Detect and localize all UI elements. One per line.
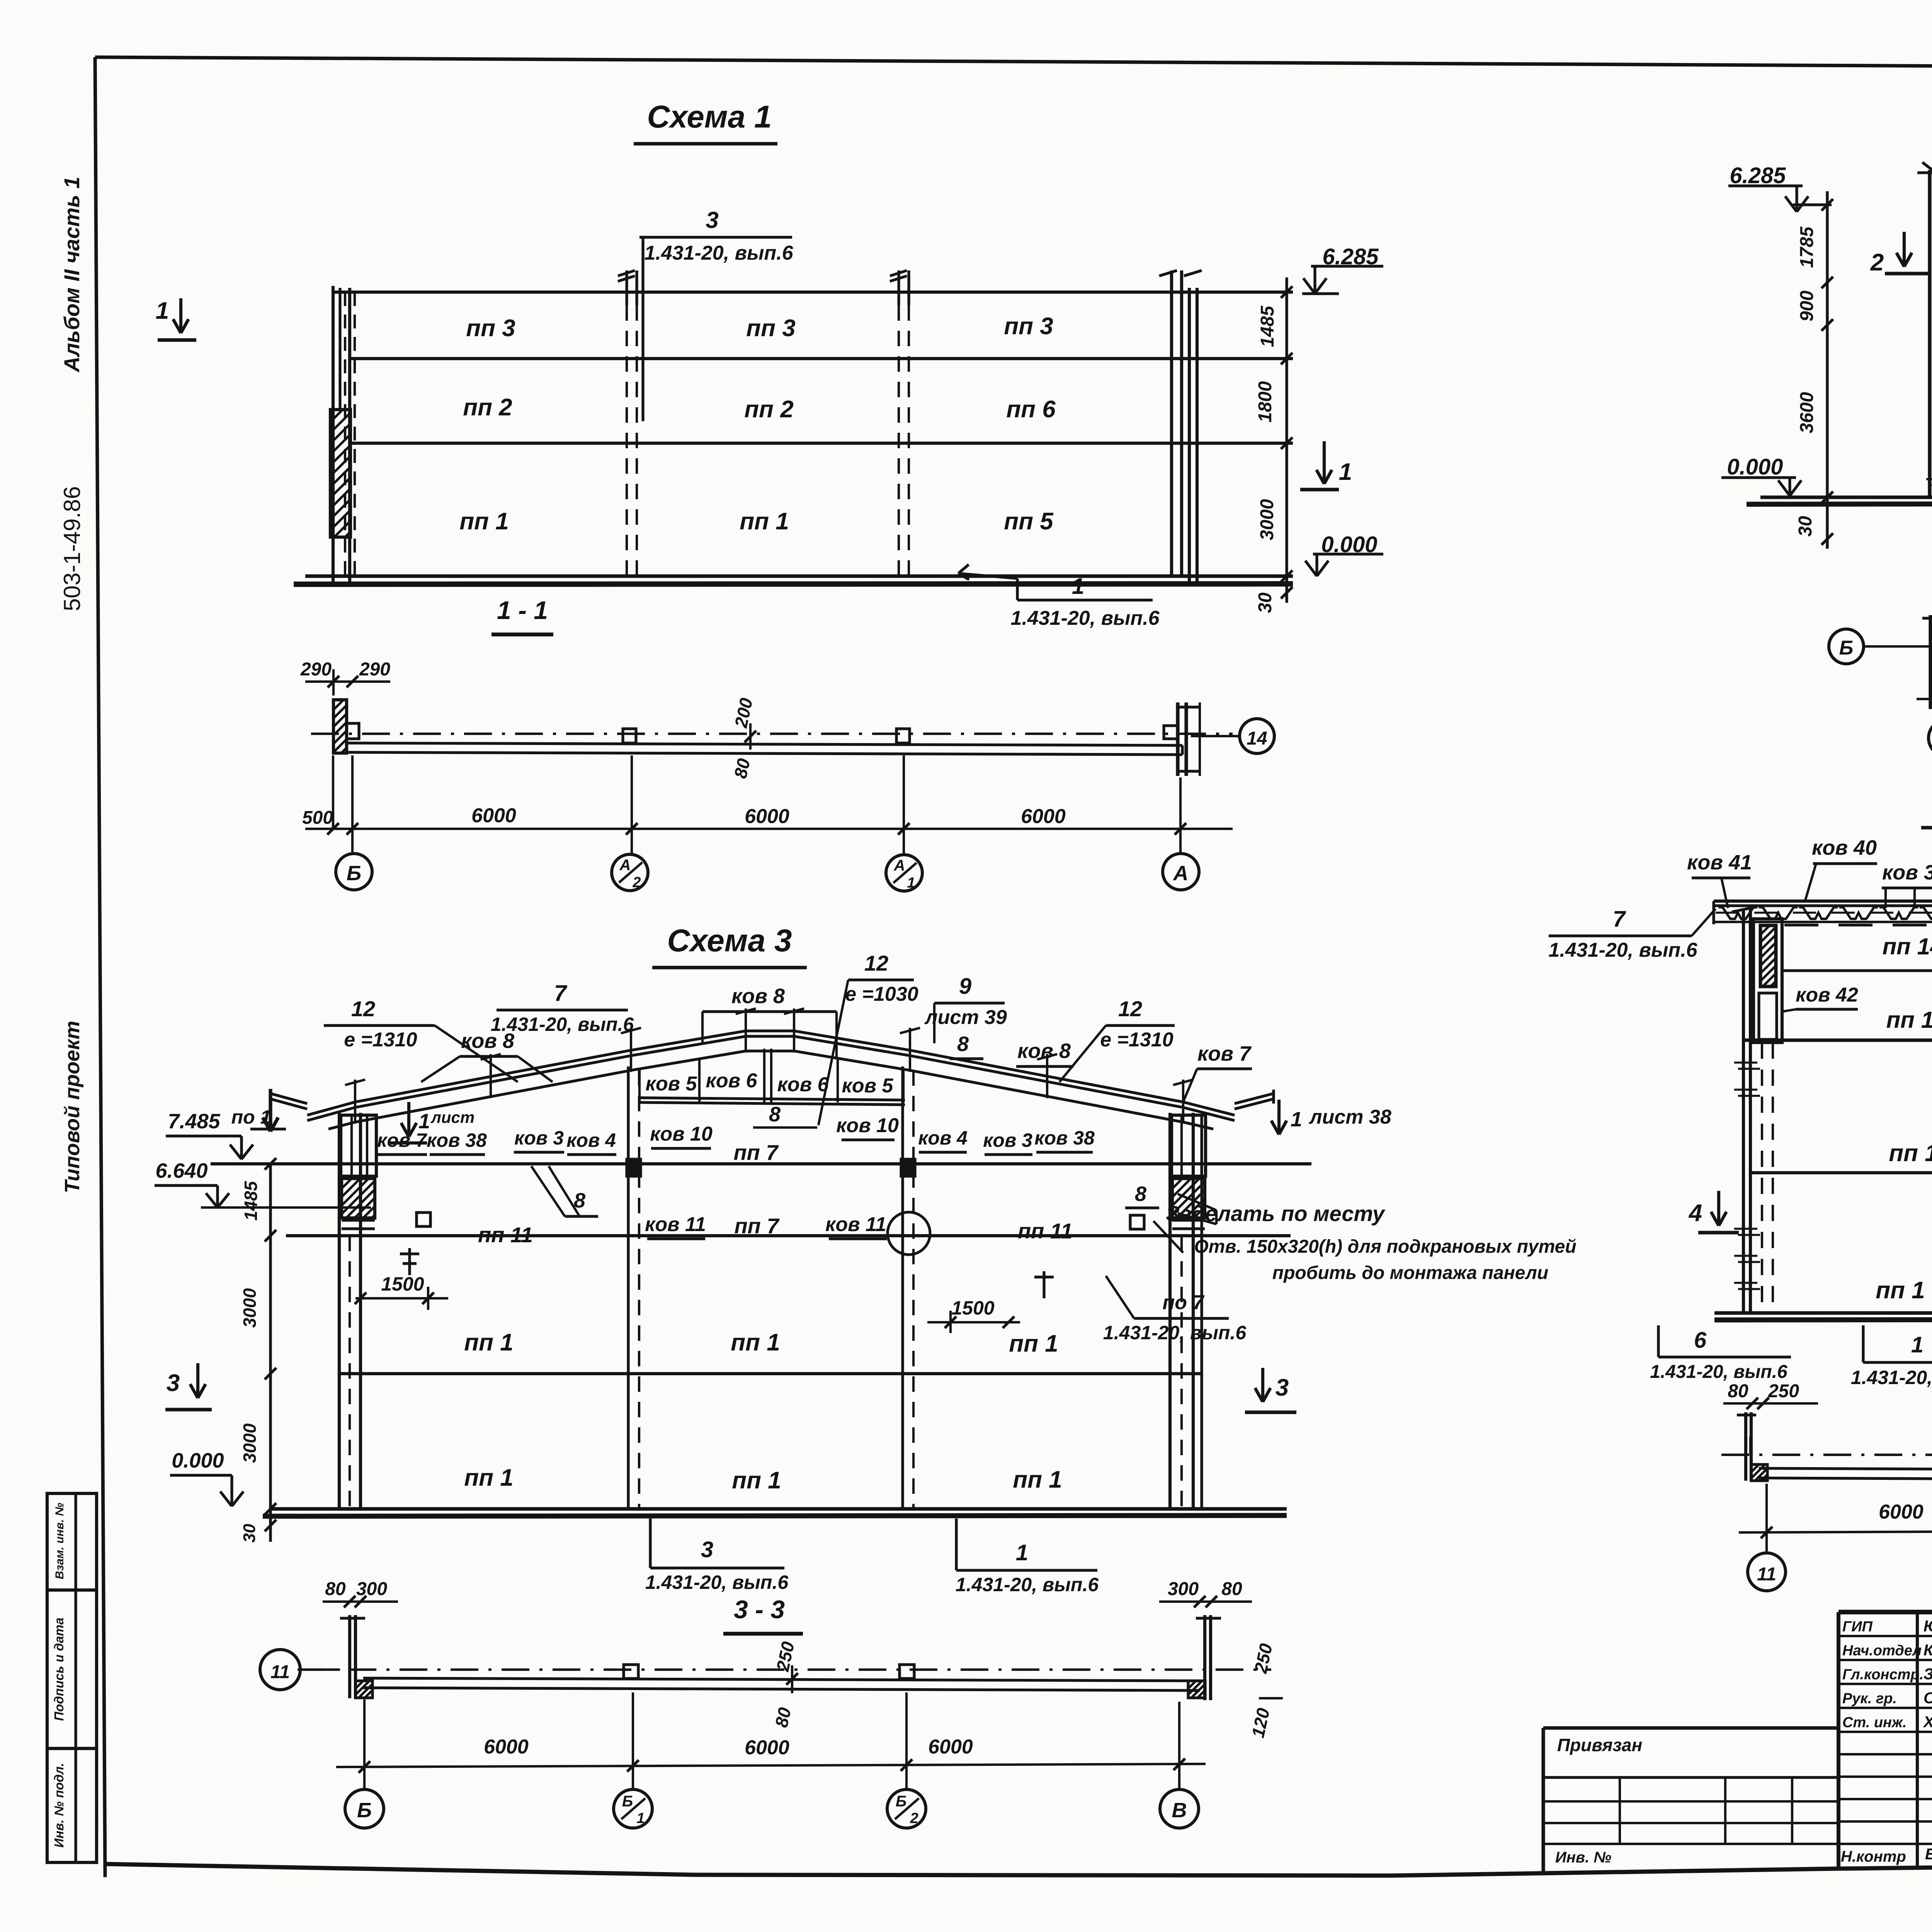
svg-text:Б: Б [347,862,361,885]
svg-text:пп 1: пп 1 [1889,1140,1932,1167]
svg-text:пп 14: пп 14 [1883,934,1932,959]
svg-text:1: 1 [1072,574,1084,599]
scheme 4 top panel line hidden dashes [1784,923,1932,926]
scheme 1 interior column at x=1635 [625,270,628,305]
svg-text:пп 7: пп 7 [733,1140,779,1165]
svg-text:1: 1 [1291,1108,1302,1131]
svg-text:В: В [1172,1799,1187,1822]
svg-text:ков 6: ков 6 [777,1073,829,1096]
svg-text:пп 1: пп 1 [1009,1330,1058,1357]
svg-text:8: 8 [769,1103,781,1126]
svg-text:по 7: по 7 [1163,1291,1205,1314]
svg-text:12: 12 [864,951,888,975]
svg-text:6000: 6000 [1021,805,1066,828]
svg-text:1.431-20, вып.6: 1.431-20, вып.6 [1548,939,1697,961]
scheme 3 interior column at x=1640 [627,1066,629,1509]
svg-text:ков 3: ков 3 [514,1127,564,1149]
section 2-2 dimension line 6000 280 [1917,698,1932,700]
svg-text:80: 80 [1728,1381,1748,1401]
svg-text:пп 6: пп 6 [1006,396,1056,423]
svg-text:1.431-20, вып.8: 1.431-20, вып.8 [1851,1367,1932,1388]
svg-text:ков 42: ков 42 [1796,984,1858,1006]
svg-text:пп 3: пп 3 [1004,313,1053,340]
svg-text:Рук. гр.: Рук. гр. [1842,1690,1897,1707]
svg-text:0.000: 0.000 [1727,454,1783,480]
section 3-3 grid bubble V [1160,1789,1199,1828]
svg-text:Хвостова: Хвостова [1923,1713,1932,1731]
section 3-3 column square B/1 [624,1665,638,1679]
svg-text:Зильбертов: Зильбертов [1923,1665,1932,1683]
section 1-1 grid bubble A/1 [886,855,922,891]
svg-text:Оруджева: Оруджева [1923,1689,1932,1707]
section 3-3 right wall plan [1203,1615,1206,1700]
svg-text:9: 9 [959,974,971,999]
svg-text:лист: лист [430,1108,475,1126]
svg-text:пп 3: пп 3 [466,315,515,342]
title block privyazan box [1543,1726,1838,1730]
svg-text:3000: 3000 [240,1288,260,1328]
svg-text:0.000: 0.000 [172,1449,224,1472]
sheet border frame left [95,57,105,1877]
svg-text:3000: 3000 [240,1423,260,1463]
scheme 3 truss bottom line double [638,1098,905,1100]
svg-text:пп 7: пп 7 [734,1214,780,1238]
svg-text:ков 39: ков 39 [1882,861,1932,884]
scheme 3 section arrow 1 left inner [407,1102,410,1137]
svg-text:1.431-20, вып.6: 1.431-20, вып.6 [1010,607,1160,629]
svg-text:6000: 6000 [1879,1501,1923,1523]
svg-text:Типовой проект: Типовой проект [61,1021,84,1194]
svg-text:ков 11: ков 11 [825,1213,886,1236]
sidebar stamp box podpis i data [47,1590,97,1748]
svg-text:3 - 3: 3 - 3 [734,1595,785,1624]
scheme 1 line under pp2 row [350,442,1293,445]
scheme 1 wall right columns [1170,270,1173,576]
svg-text:1: 1 [156,298,169,324]
svg-text:900: 900 [1797,291,1817,321]
svg-text:1485: 1485 [241,1180,261,1221]
svg-text:Подпись и дата: Подпись и дата [52,1617,66,1721]
svg-text:ков 5: ков 5 [842,1075,894,1097]
svg-text:1.431-20, вып.6: 1.431-20, вып.6 [645,1571,789,1593]
scheme 1 ground line [305,574,1293,578]
svg-text:11: 11 [270,1662,290,1682]
svg-text:ков 10: ков 10 [650,1123,713,1145]
section 3-3 left wall plan [348,1615,351,1698]
svg-text:пп 2: пп 2 [744,396,793,423]
sheet border frame top [95,57,1932,70]
section 3-3 axis line [298,1668,1271,1671]
svg-text:Есина: Есина [1925,1845,1932,1863]
svg-text:Гл.констр.: Гл.констр. [1842,1667,1923,1683]
svg-text:80: 80 [325,1579,346,1599]
svg-text:2: 2 [1870,249,1884,276]
svg-text:1785: 1785 [1797,226,1817,268]
section 3-3 grid bubble B [345,1789,384,1828]
svg-text:300: 300 [1168,1579,1199,1599]
svg-text:пп 1: пп 1 [464,1464,513,1491]
svg-text:1800: 1800 [1255,381,1276,422]
svg-text:ков 40: ков 40 [1812,836,1877,859]
svg-text:А: А [619,857,631,874]
svg-text:250: 250 [1768,1381,1799,1401]
svg-text:Схема 3: Схема 3 [667,923,792,958]
svg-text:Б: Б [357,1799,372,1822]
svg-text:1: 1 [1339,459,1352,485]
svg-text:8: 8 [957,1032,969,1056]
svg-text:пп 3: пп 3 [746,315,795,342]
svg-text:ков 4: ков 4 [566,1129,616,1151]
svg-text:6000: 6000 [471,804,516,827]
scheme 3 anchor symbol left [408,1248,411,1275]
svg-text:ков 10: ков 10 [836,1114,899,1137]
svg-text:Отв. 150х320(h) для подкрановы: Отв. 150х320(h) для подкрановых путей [1194,1236,1576,1257]
scheme 4 wall left edge [1742,909,1745,1313]
section 1-1 grid extension lines [351,755,354,854]
svg-text:Взам. инв. №: Взам. инв. № [53,1503,66,1579]
scheme 2 dimension column left [1826,191,1828,549]
section 1-1 dimension line 500 6000x3 [305,828,1233,830]
svg-text:12: 12 [351,997,375,1021]
sidebar stamp box inv no podl [47,1748,97,1862]
scheme 1 section mark 1 right [1323,441,1326,484]
scheme 3 section mark 3 right [1261,1368,1264,1402]
svg-text:1.431-20, вып.6: 1.431-20, вып.6 [1103,1322,1247,1344]
section 1-1 wall right plan [1176,702,1179,776]
scheme 3 right wall column [1168,1113,1172,1509]
svg-text:Б: Б [622,1793,633,1810]
section 3-3 beam plan [363,1678,1200,1681]
scheme 3 line 6.000 [286,1234,1291,1237]
scheme 2 ground line [1760,495,1932,499]
scheme 1 section mark 1 left [179,298,182,333]
svg-text:3: 3 [1276,1374,1289,1401]
svg-text:1500: 1500 [951,1297,994,1319]
svg-text:1.431-20, вып.6: 1.431-20, вып.6 [644,242,793,264]
scheme 4 mid line pp1 [1750,1171,1932,1174]
svg-text:пп 11: пп 11 [478,1223,533,1247]
svg-text:2: 2 [910,1810,918,1827]
svg-text:пп 1: пп 1 [1876,1277,1925,1304]
svg-text:пп 1: пп 1 [740,508,789,535]
svg-text:ков 8: ков 8 [1017,1039,1071,1063]
svg-text:пп 11: пп 11 [1018,1219,1073,1243]
scheme 1 line under pp3 row [350,357,1293,360]
section 1-1 grid bubble A [1163,854,1199,890]
svg-text:А: А [1173,862,1189,885]
svg-text:ков 38: ков 38 [1034,1127,1095,1149]
svg-text:1 - 1: 1 - 1 [497,596,548,624]
svg-text:3: 3 [167,1370,180,1396]
section 3-3 callout circle 11 [260,1650,300,1690]
scheme 1 panel top line [332,291,1293,294]
scheme 1 right dimension column [1285,277,1288,603]
svg-text:290: 290 [359,659,390,680]
svg-text:1: 1 [1911,1332,1923,1357]
svg-text:11: 11 [1757,1564,1776,1585]
svg-text:1: 1 [636,1810,645,1827]
svg-text:Б: Б [896,1793,906,1810]
svg-text:30: 30 [1255,592,1276,613]
svg-text:1485: 1485 [1257,305,1278,347]
svg-text:лист 38: лист 38 [1308,1106,1391,1128]
title block signature table columns [1916,1612,1919,1866]
scheme 4 line under pp12 bold [1743,1039,1932,1042]
section 1-1 callout circle 14 [1191,735,1240,737]
svg-text:1: 1 [1016,1540,1028,1565]
svg-text:7: 7 [554,981,568,1006]
sidebar stamp box vzam inv no [47,1493,97,1590]
svg-text:3600: 3600 [1797,392,1817,433]
section 1-1 partition beam plan [347,743,1182,745]
svg-text:Б: Б [1839,637,1854,659]
svg-text:14: 14 [1247,728,1267,749]
svg-text:пп 12: пп 12 [1886,1007,1932,1033]
svg-text:ков 6: ков 6 [706,1070,758,1092]
scheme 3 roof joint ticks [354,1080,356,1124]
svg-text:6.640: 6.640 [155,1159,207,1182]
section 1-1 column plan A/1 [896,729,910,743]
svg-text:7.485: 7.485 [168,1110,220,1133]
svg-text:1: 1 [418,1110,430,1133]
svg-text:лист 39: лист 39 [924,1006,1007,1029]
svg-text:7: 7 [1613,906,1626,932]
svg-text:пп 1: пп 1 [1013,1466,1062,1493]
svg-text:4: 4 [1688,1200,1702,1226]
svg-text:3000: 3000 [1257,499,1277,540]
svg-text:1.431-20, вып.6: 1.431-20, вып.6 [1650,1362,1787,1382]
svg-text:300: 300 [356,1579,387,1599]
svg-text:e =1310: e =1310 [1100,1029,1173,1051]
svg-text:А: А [894,857,905,874]
svg-text:ков 11: ков 11 [645,1213,706,1236]
svg-text:Нач.отдел: Нач.отдел [1842,1643,1922,1659]
scheme 4 line under pp14 segments [1782,969,1932,972]
svg-text:пп 2: пп 2 [463,394,512,421]
svg-text:Привязан: Привязан [1557,1735,1642,1755]
svg-text:Ст. инж.: Ст. инж. [1842,1714,1907,1731]
scheme 1 leader 1 / 1.431-20 at ground [1017,599,1153,601]
scheme 4 roof slab band [1714,900,1932,903]
svg-text:6000: 6000 [745,1736,789,1759]
scheme 3 roof slab top chord [307,1031,1235,1115]
section 3-3 column square B/2 [900,1665,914,1679]
scheme 3 left dim column [269,1164,272,1542]
svg-text:Схема 1: Схема 1 [647,99,772,134]
svg-text:пп 1: пп 1 [464,1329,513,1356]
scheme 1 wall left pilaster [332,286,335,582]
svg-text:e =1030: e =1030 [845,983,918,1005]
section 4-4 axis line [1721,1454,1932,1456]
svg-text:Юрин: Юрин [1923,1617,1932,1635]
scheme 3 ground line [270,1507,1287,1510]
svg-text:пп 1: пп 1 [731,1329,780,1356]
section 1-1 grid bubble A/2 [612,854,648,891]
sheet border frame bottom [105,1859,1932,1876]
svg-text:503-1-49.86: 503-1-49.86 [59,486,85,611]
svg-text:ков 38: ков 38 [427,1129,487,1151]
svg-text:e =1310: e =1310 [344,1029,417,1051]
scheme 4 column 1 with anchor kov42 [1753,919,1782,1043]
section 4-4 dimension line [1739,1530,1932,1532]
section 4-4 beam plan [1759,1468,1932,1471]
section 3-3 grid bubble B/1 [614,1789,652,1828]
svg-text:Инв. № подл.: Инв. № подл. [52,1763,66,1847]
section 1-1 wall pilaster plan [333,700,347,753]
svg-text:Инв. №: Инв. № [1555,1849,1611,1866]
svg-text:пп 5: пп 5 [1004,508,1054,535]
section 1-1 axis line [311,733,1233,735]
svg-text:500: 500 [302,808,333,828]
section 4-4 grid bubble 11 [1748,1553,1786,1591]
svg-text:2: 2 [632,874,641,891]
scheme 1 interior column at x=2339 [897,270,900,305]
scheme 3 right eave cantilever [1235,1094,1274,1104]
svg-text:ков 7: ков 7 [1197,1042,1252,1065]
sidebar divider [74,1493,77,1862]
scheme 4 ground line [1714,1311,1932,1315]
section 2-2 left column plan [1929,615,1932,709]
svg-text:290: 290 [300,659,332,680]
section 3-3 grid bubble B/2 [887,1789,926,1828]
scheme 3 left wall column [338,1113,341,1509]
scheme 1 wall left dashed column [344,292,346,576]
svg-text:30: 30 [1795,516,1816,537]
svg-text:6000: 6000 [928,1736,973,1758]
svg-text:Катков: Катков [1923,1641,1932,1659]
scheme 3 anchor hole square left [417,1213,430,1226]
svg-text:1.431-20, вып.6: 1.431-20, вып.6 [956,1574,1099,1595]
svg-text:6: 6 [1694,1328,1707,1353]
scheme 3 section arrow 1 right inner [1277,1100,1281,1134]
section 3-3 grid extension lines [363,1699,366,1788]
svg-text:пп 1: пп 1 [732,1467,781,1494]
svg-text:Н.контр: Н.контр [1841,1848,1906,1865]
scheme 3 band line 7.485 [211,1162,1311,1165]
svg-text:ГИП: ГИП [1842,1619,1873,1635]
svg-text:80: 80 [1221,1579,1242,1599]
svg-text:8: 8 [1135,1182,1146,1206]
svg-text:пп 1: пп 1 [459,508,509,535]
section 2-2 grid bubble B [1829,629,1864,664]
svg-text:30: 30 [240,1524,259,1543]
scheme 3 anchor symbol right [1043,1271,1045,1298]
scheme 2 left column [1928,170,1931,497]
svg-text:Заделать по месту: Заделать по месту [1166,1201,1386,1226]
svg-text:1500: 1500 [381,1273,424,1295]
svg-text:ков 4: ков 4 [918,1127,968,1149]
svg-text:ков 41: ков 41 [1687,851,1752,874]
svg-text:6000: 6000 [484,1736,529,1758]
scheme 3 anchor hole square right [1130,1215,1144,1229]
scheme 3 line 3.000 [339,1372,1202,1375]
title block outer border [1838,1610,1932,1614]
svg-text:12: 12 [1118,997,1142,1021]
svg-text:ков 8: ков 8 [731,985,785,1008]
svg-text:3: 3 [706,207,718,233]
section 1-1 grid bubble B [336,854,372,890]
section 4-4 left wall plan [1744,1412,1747,1481]
svg-text:1: 1 [907,875,915,891]
svg-text:6000: 6000 [745,805,789,828]
svg-text:пробить до монтажа панели: пробить до монтажа панели [1272,1263,1548,1283]
scheme 3 interior column at x=2350 [901,1066,904,1509]
section 1-1 column plan A/2 [623,729,636,743]
scheme 3 left eave cantilever [270,1094,307,1104]
svg-text:ков 5: ков 5 [646,1073,697,1095]
section 3-3 dimension line [336,1764,1206,1767]
scheme 3 panel joint verticals [638,1068,641,1102]
svg-text:Альбом II часть 1: Альбом II часть 1 [60,177,84,373]
svg-text:6.285: 6.285 [1730,163,1786,188]
svg-text:3: 3 [701,1537,713,1562]
svg-text:ков 3: ков 3 [983,1129,1032,1151]
svg-text:ков 8: ков 8 [461,1029,514,1053]
